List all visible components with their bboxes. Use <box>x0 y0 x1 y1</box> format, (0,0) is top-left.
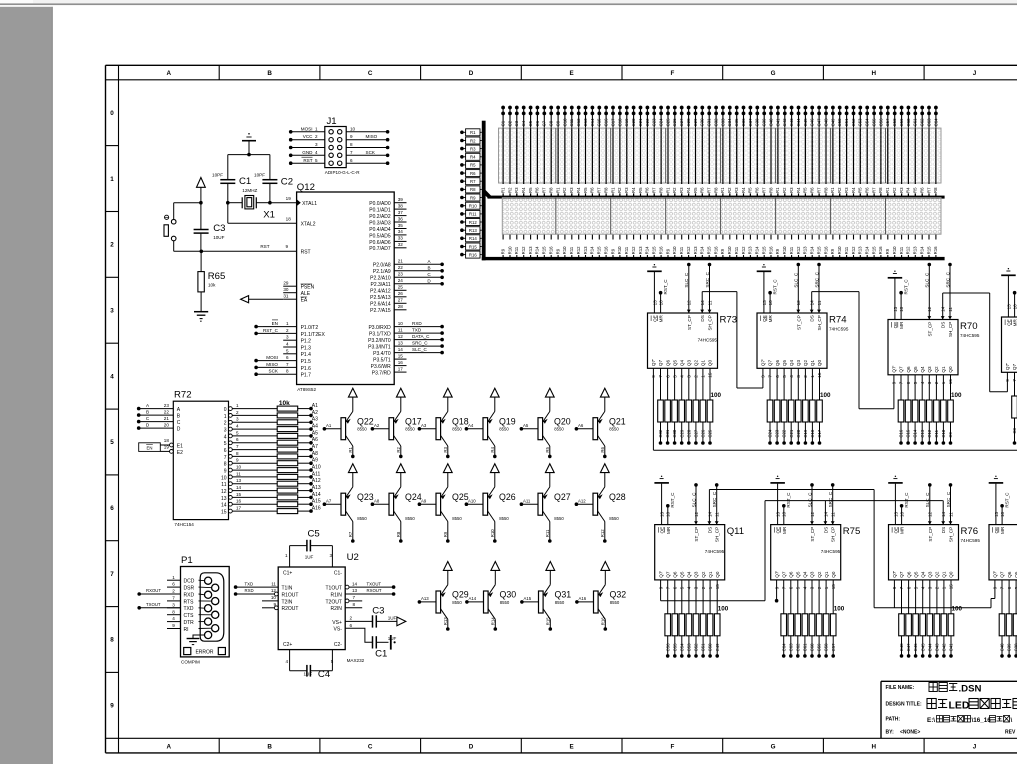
svg-text:R4: R4 <box>521 187 526 193</box>
svg-text:8550: 8550 <box>609 427 619 432</box>
design title 点阵LED电子显示屏 <box>927 699 936 709</box>
svg-text:C8: C8 <box>549 120 554 126</box>
svg-text:39: 39 <box>398 197 404 202</box>
svg-text:10: 10 <box>221 475 227 481</box>
svg-text:R14: R14 <box>535 246 540 254</box>
matrix column C38 wire <box>756 106 758 197</box>
svg-text:C39: C39 <box>762 118 767 126</box>
svg-text:C26: C26 <box>701 429 706 437</box>
svg-text:R76: R76 <box>961 526 979 537</box>
svg-text:C3: C3 <box>514 120 519 126</box>
svg-text:SLC_C: SLC_C <box>412 347 427 352</box>
svg-text:8: 8 <box>286 369 289 374</box>
svg-text:C11: C11 <box>934 429 939 437</box>
matrix column C58 wire <box>894 106 896 197</box>
svg-text:C59: C59 <box>899 118 904 126</box>
svg-text:C39: C39 <box>1007 643 1012 651</box>
svg-text:A3: A3 <box>312 417 318 423</box>
svg-text:SRC_C: SRC_C <box>705 271 710 287</box>
svg-text:C50: C50 <box>837 118 842 126</box>
svg-text:6: 6 <box>286 355 289 360</box>
wire U8.Q7 stub <box>994 580 996 599</box>
power arrow (C3) <box>397 617 406 626</box>
svg-text:5: 5 <box>286 348 289 353</box>
transistor Q22 8550 <box>341 418 346 440</box>
svg-text:8550: 8550 <box>499 427 509 432</box>
svg-text:21: 21 <box>398 259 404 264</box>
svg-text:R2: R2 <box>617 187 622 193</box>
svg-text:R16: R16 <box>823 246 828 254</box>
svg-text:P2.7/A15: P2.7/A15 <box>370 308 391 314</box>
svg-text:P0.7/AD7: P0.7/AD7 <box>369 246 391 252</box>
matrix column C54 wire <box>866 106 868 197</box>
svg-text:C13: C13 <box>920 429 925 437</box>
wire chain R70.DS <box>942 293 944 320</box>
wire J1 pin 2 <box>291 139 325 141</box>
svg-text:C2: C2 <box>281 177 293 188</box>
svg-text:OE: OE <box>652 315 657 322</box>
svg-text:C31: C31 <box>707 118 712 126</box>
svg-text:P3.0/RXD: P3.0/RXD <box>368 325 391 331</box>
svg-text:R13: R13 <box>748 246 753 254</box>
svg-text:A12: A12 <box>312 478 321 484</box>
ground (R73 OE) <box>647 270 662 272</box>
wire J1 pin 6 <box>346 162 387 164</box>
matrix column C14 wire <box>591 106 593 197</box>
power arrow VCC <box>601 562 610 571</box>
svg-text:4: 4 <box>224 434 227 440</box>
svg-text:Q30: Q30 <box>500 590 517 600</box>
transistor Q25 8550 <box>436 493 441 515</box>
svg-text:E:\: E:\ <box>927 717 935 724</box>
svg-text:RST_C: RST_C <box>773 279 778 295</box>
svg-text:R14: R14 <box>645 246 650 254</box>
matrix column C2 wire <box>509 106 511 197</box>
matrix column C31 wire <box>708 106 710 197</box>
wire chain Q11.Q7 <box>660 580 662 601</box>
matrix column C3 wire <box>516 106 518 197</box>
svg-text:RXOUT: RXOUT <box>367 588 382 593</box>
svg-text:14: 14 <box>352 581 358 586</box>
svg-text:C1: C1 <box>501 120 506 126</box>
power arrow VCC <box>545 388 554 397</box>
svg-text:R10: R10 <box>617 246 622 254</box>
svg-text:Q2: Q2 <box>935 571 940 578</box>
svg-text:R12: R12 <box>741 246 746 254</box>
svg-text:R13: R13 <box>693 246 698 254</box>
svg-text:A16: A16 <box>579 596 587 601</box>
svg-text:R10: R10 <box>892 246 897 254</box>
svg-text:R2OUT: R2OUT <box>282 606 299 612</box>
svg-text:Q2: Q2 <box>803 360 808 367</box>
net R2 (collector) <box>399 455 403 459</box>
svg-text:R6: R6 <box>535 187 540 193</box>
svg-text:R13: R13 <box>583 246 588 254</box>
svg-text:P1.1/T2EX: P1.1/T2EX <box>301 332 326 338</box>
svg-text:C23: C23 <box>775 429 780 437</box>
svg-text:P3.4/T0: P3.4/T0 <box>373 351 391 357</box>
svg-text:C16: C16 <box>604 118 609 126</box>
svg-text:1: 1 <box>224 414 227 420</box>
svg-text:SLC_C: SLC_C <box>794 272 799 287</box>
svg-text:1: 1 <box>110 176 114 183</box>
svg-text:R4: R4 <box>576 187 581 193</box>
ground (R70 OE) <box>888 277 903 279</box>
transistor Q27 8550 <box>538 493 543 515</box>
matrix column C44 wire <box>798 106 800 197</box>
svg-text:R2: R2 <box>470 138 476 143</box>
svg-text:RST_C: RST_C <box>786 492 791 508</box>
svg-text:RXD: RXD <box>245 588 254 593</box>
svg-text:12: 12 <box>271 588 277 593</box>
svg-text:R7: R7 <box>348 531 353 537</box>
svg-text:6: 6 <box>236 437 239 442</box>
svg-text:R7: R7 <box>470 179 476 184</box>
svg-text:Q3: Q3 <box>694 571 699 578</box>
svg-text:R14: R14 <box>700 246 705 254</box>
svg-text:8: 8 <box>353 602 356 607</box>
svg-text:OE: OE <box>893 527 898 534</box>
svg-text:R13: R13 <box>638 246 643 254</box>
svg-text:DESIGN TITLE:: DESIGN TITLE: <box>886 702 922 708</box>
wire chain R73.DS <box>701 292 703 313</box>
wire RST to MCU <box>201 250 296 252</box>
svg-text:4: 4 <box>285 659 288 664</box>
svg-text:R7: R7 <box>707 187 712 193</box>
svg-text:XTAL2: XTAL2 <box>301 222 316 228</box>
svg-text:RXOUT: RXOUT <box>146 588 161 593</box>
shift register 74HC595 <box>989 525 1017 580</box>
svg-text:10: 10 <box>398 321 404 326</box>
svg-text:3: 3 <box>172 602 175 607</box>
svg-text:C60: C60 <box>810 643 815 651</box>
svg-text:Q7: Q7 <box>899 366 904 373</box>
svg-text:R6: R6 <box>470 171 476 176</box>
ground (top of C1/C2 rail) <box>242 140 256 142</box>
svg-text:MR: MR <box>782 526 787 534</box>
wire <box>228 154 270 156</box>
svg-text:Q7': Q7' <box>651 359 656 366</box>
svg-text:E1: E1 <box>177 443 183 449</box>
svg-text:3: 3 <box>224 428 227 434</box>
matrix column C17 wire <box>612 106 614 197</box>
svg-text:C49: C49 <box>715 643 720 651</box>
svg-text:C28: C28 <box>686 429 691 437</box>
svg-text:Q7': Q7' <box>658 571 663 578</box>
svg-text:R11: R11 <box>789 246 794 254</box>
svg-text:Q4: Q4 <box>803 571 808 578</box>
svg-text:5: 5 <box>236 430 239 435</box>
svg-text:R3: R3 <box>679 187 684 193</box>
svg-text:Q3: Q3 <box>927 366 932 373</box>
net A16 (base) <box>575 600 579 604</box>
wire chain Q11.DS <box>708 490 710 525</box>
svg-text:R2: R2 <box>672 187 677 193</box>
svg-text:R2: R2 <box>727 187 732 193</box>
svg-text:Q2: Q2 <box>934 366 939 373</box>
svg-text:R74: R74 <box>829 315 847 326</box>
svg-text:B: B <box>267 743 272 750</box>
svg-text:Q1: Q1 <box>708 571 713 578</box>
svg-text:23: 23 <box>164 403 170 408</box>
svg-text:LED: LED <box>949 700 970 712</box>
net tag R11 <box>460 212 464 216</box>
svg-text:Q7: Q7 <box>665 571 670 578</box>
svg-text:7: 7 <box>236 444 239 449</box>
svg-text:C60: C60 <box>906 118 911 126</box>
svg-text:Q5: Q5 <box>913 571 918 578</box>
svg-text:10: 10 <box>236 465 242 470</box>
matrix column C42 wire <box>784 106 786 197</box>
svg-text:R8: R8 <box>933 187 938 193</box>
svg-text:ST_CP: ST_CP <box>694 527 699 542</box>
svg-text:0: 0 <box>224 407 227 413</box>
svg-text:C30: C30 <box>672 429 677 437</box>
matrix column C61 wire <box>914 106 916 197</box>
net A11 (base) <box>520 502 524 506</box>
svg-text:R11: R11 <box>899 246 904 254</box>
svg-text:R14: R14 <box>865 246 870 254</box>
svg-text:C2-: C2- <box>334 642 342 648</box>
svg-text:Q7: Q7 <box>781 571 786 578</box>
net A1 (base) <box>323 427 327 431</box>
matrix column C60 wire <box>907 106 909 197</box>
svg-text:GND: GND <box>302 150 313 155</box>
svg-text:A13: A13 <box>421 596 429 601</box>
svg-text:PSEN: PSEN <box>301 285 315 291</box>
svg-text:Q1: Q1 <box>701 360 706 367</box>
svg-text:R1: R1 <box>470 130 476 135</box>
svg-text:8550: 8550 <box>357 427 367 432</box>
transistor Q32 8550 <box>594 591 599 613</box>
svg-text:PATH:: PATH: <box>886 717 901 723</box>
svg-text:R16: R16 <box>878 246 883 254</box>
wire <box>174 202 201 204</box>
svg-text:C46: C46 <box>810 118 815 126</box>
wire XTAL1 <box>270 202 297 204</box>
svg-text:Q11: Q11 <box>727 526 744 537</box>
net A2 (base) <box>371 427 375 431</box>
net R9 (collector) <box>446 539 450 543</box>
svg-text:P1.5: P1.5 <box>301 359 312 365</box>
svg-text:A2: A2 <box>374 423 380 428</box>
svg-text:9: 9 <box>285 244 288 249</box>
svg-text:C38: C38 <box>755 118 760 126</box>
node <box>268 201 272 205</box>
ground ( OE) <box>1001 274 1016 276</box>
matrix column C36 wire <box>743 106 745 197</box>
capacitor C2 <box>262 179 277 181</box>
svg-text:MISO: MISO <box>266 362 278 367</box>
shift register R73 74HC595 <box>648 313 718 368</box>
svg-text:R4: R4 <box>741 187 746 193</box>
svg-text:SRC_C: SRC_C <box>412 341 428 346</box>
svg-text:R13: R13 <box>469 228 477 233</box>
svg-text:T2OUT: T2OUT <box>326 599 342 605</box>
svg-text:EN: EN <box>272 321 278 326</box>
svg-text:A7: A7 <box>326 498 332 503</box>
svg-text:SRC_C: SRC_C <box>946 491 951 507</box>
net SRC_C (R70 SH_CP) <box>948 263 952 267</box>
svg-text:C55: C55 <box>872 118 877 126</box>
net tag R13 <box>460 228 464 232</box>
matrix column C56 wire <box>880 106 882 197</box>
net RST_C ( MR) <box>1013 291 1017 295</box>
svg-text:R9: R9 <box>830 248 835 254</box>
svg-text:Q20: Q20 <box>554 416 571 426</box>
pin RXD of P1 <box>167 593 181 595</box>
matrix column C62 wire <box>921 106 923 197</box>
svg-text:2: 2 <box>172 589 175 594</box>
svg-text:P3.6/WR: P3.6/WR <box>371 364 391 370</box>
svg-text:C57: C57 <box>831 643 836 651</box>
svg-text:R75: R75 <box>843 526 861 537</box>
svg-text:R15: R15 <box>707 246 712 254</box>
svg-text:P1.0/T2: P1.0/T2 <box>301 325 319 331</box>
svg-text:R11: R11 <box>624 246 629 254</box>
svg-text:P2.0/A8: P2.0/A8 <box>373 263 391 269</box>
svg-text:15: 15 <box>221 510 227 516</box>
svg-text:R13: R13 <box>528 246 533 254</box>
svg-text:2: 2 <box>110 242 114 249</box>
svg-text:22: 22 <box>164 410 170 415</box>
svg-text:R1: R1 <box>665 187 670 193</box>
svg-text:100: 100 <box>820 392 831 399</box>
svg-text:A: A <box>167 70 172 77</box>
svg-text:C43: C43 <box>789 118 794 126</box>
svg-text:SCK: SCK <box>269 369 279 374</box>
net A8 (base) <box>371 502 375 506</box>
svg-text:E: E <box>569 743 573 750</box>
svg-text:C53: C53 <box>687 643 692 651</box>
svg-text:2: 2 <box>236 410 239 415</box>
matrix column C55 wire <box>873 106 875 197</box>
svg-text:R2: R2 <box>562 187 567 193</box>
module divider lines <box>555 128 557 183</box>
matrix column C37 wire <box>749 106 751 197</box>
svg-text:Q18: Q18 <box>452 416 469 426</box>
svg-text:C52: C52 <box>694 643 699 651</box>
pin E1 <box>160 444 169 446</box>
svg-text:C51: C51 <box>701 643 706 651</box>
svg-text:6: 6 <box>224 448 227 454</box>
power arrow VCC <box>600 464 609 473</box>
svg-text:SH_CP: SH_CP <box>831 527 836 542</box>
svg-text:R12: R12 <box>576 246 581 254</box>
svg-text:100: 100 <box>951 392 962 399</box>
svg-text:A6: A6 <box>578 423 584 428</box>
svg-text:Q17: Q17 <box>405 416 422 426</box>
svg-text:DS: DS <box>810 315 815 321</box>
shift register 74HC595 <box>1002 317 1017 372</box>
svg-text:REV: REV <box>1005 730 1016 736</box>
net R7 (collector) <box>351 539 355 543</box>
svg-text:T1IN: T1IN <box>282 586 293 592</box>
svg-text:C32: C32 <box>658 429 663 437</box>
svg-text:P1.3: P1.3 <box>301 345 312 351</box>
svg-text:R12: R12 <box>796 246 801 254</box>
svg-text:R10: R10 <box>672 246 677 254</box>
svg-text:SLC_C: SLC_C <box>807 492 812 507</box>
svg-text:12: 12 <box>398 334 404 339</box>
svg-text:C22: C22 <box>782 429 787 437</box>
pin EA <box>283 298 296 300</box>
svg-text:P0.4/AD4: P0.4/AD4 <box>369 227 391 233</box>
svg-text:14: 14 <box>236 485 242 490</box>
shift register R74 74HC595 <box>757 313 827 368</box>
svg-text:A12: A12 <box>578 498 586 503</box>
DB9 shell <box>200 573 224 641</box>
svg-text:.DSN: .DSN <box>959 684 982 695</box>
transistor Q29 8550 <box>436 591 441 613</box>
net RXOUT (P1) <box>139 593 180 595</box>
svg-text:C5: C5 <box>528 120 533 126</box>
svg-text:C10: C10 <box>941 429 946 437</box>
svg-text:VCC: VCC <box>303 134 313 139</box>
P1 status squares + ERROR <box>184 648 191 655</box>
svg-text:C49: C49 <box>830 118 835 126</box>
svg-text:A4: A4 <box>312 424 318 430</box>
svg-text:R4: R4 <box>490 446 495 452</box>
matrix column C9 wire <box>557 106 559 197</box>
svg-text:Q5: Q5 <box>672 360 677 367</box>
svg-text:R16: R16 <box>601 617 606 625</box>
svg-text:RST_C: RST_C <box>663 279 668 295</box>
svg-text:R3: R3 <box>470 146 476 151</box>
svg-text:R9: R9 <box>555 248 560 254</box>
svg-text:R6: R6 <box>600 446 605 452</box>
wire XTAL2 <box>227 203 229 224</box>
svg-text:C62: C62 <box>795 643 800 651</box>
svg-text:Q19: Q19 <box>499 416 516 426</box>
svg-text:Q4: Q4 <box>679 360 684 367</box>
net A13 (base) <box>418 600 422 604</box>
capacitor C5 1UF <box>289 546 291 567</box>
svg-text:8: 8 <box>224 462 227 468</box>
svg-text:R6: R6 <box>700 187 705 193</box>
svg-text:8550: 8550 <box>554 516 564 521</box>
svg-text:C44: C44 <box>796 118 801 126</box>
svg-text:Q2: Q2 <box>694 360 699 367</box>
svg-text:C40: C40 <box>1000 643 1005 651</box>
svg-text:R1: R1 <box>720 187 725 193</box>
svg-text:B: B <box>267 70 272 77</box>
svg-text:8550: 8550 <box>452 600 462 605</box>
net R3 (collector) <box>446 455 450 459</box>
svg-text:Q2: Q2 <box>817 571 822 578</box>
svg-text:R8: R8 <box>768 187 773 193</box>
svg-text:R15: R15 <box>871 246 876 254</box>
svg-text:36: 36 <box>398 216 404 221</box>
net A3 (base) <box>418 427 422 431</box>
svg-text:P1.4: P1.4 <box>301 352 312 358</box>
svg-text:6: 6 <box>350 158 353 163</box>
svg-text:P0.6/AD6: P0.6/AD6 <box>369 240 391 246</box>
svg-text:C10: C10 <box>562 118 567 126</box>
matrix column C6 wire <box>536 106 538 197</box>
matrix column C39 wire <box>763 106 765 197</box>
net RST_C ( MR) <box>1000 504 1004 508</box>
pin R1IN / net RXOUT <box>345 593 393 595</box>
power arrow VCC <box>396 388 405 397</box>
svg-text:Q6: Q6 <box>1007 571 1012 578</box>
svg-text:Q3: Q3 <box>796 360 801 367</box>
svg-text:A4: A4 <box>468 423 474 428</box>
svg-text:A10: A10 <box>468 498 476 503</box>
svg-text:P2.3/A11: P2.3/A11 <box>370 282 390 288</box>
svg-text:1: 1 <box>286 321 289 326</box>
svg-text:MOSI: MOSI <box>266 355 278 360</box>
